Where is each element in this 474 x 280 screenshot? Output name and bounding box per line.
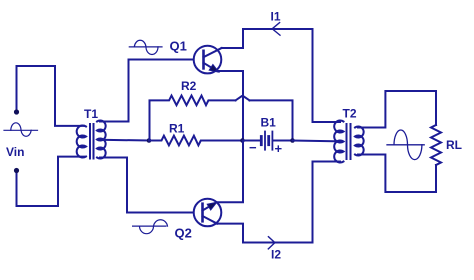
battery B1 bbox=[243, 132, 293, 150]
wire T2 secondary bottom to RL loop bbox=[358, 155, 436, 193]
svg-text:Q1: Q1 bbox=[170, 39, 187, 54]
arrow I2 (pointing right) bbox=[268, 237, 275, 249]
wire RL right vertical top bbox=[435, 91, 437, 125]
resistor R1 bbox=[149, 136, 243, 146]
node B junction dot bbox=[290, 138, 295, 143]
svg-text:Q2: Q2 bbox=[175, 226, 192, 241]
wire Vin loop top bbox=[17, 66, 85, 126]
svg-text:I1: I1 bbox=[271, 10, 281, 24]
svg-text:Vin: Vin bbox=[6, 145, 24, 159]
wire Q1 collector to top rail bbox=[222, 29, 243, 48]
wire T2 secondary top to RL loop bbox=[358, 91, 436, 128]
transformer T1 core bbox=[90, 124, 94, 159]
wire T1 secondary bottom to Q2 base bbox=[100, 158, 194, 213]
transformer T1 primary winding bbox=[77, 126, 86, 158]
transformer T2 secondary winding bbox=[355, 127, 364, 156]
wire Q1 emitter down to node C bbox=[216, 71, 243, 141]
wire T1 secondary top to Q1 base bbox=[100, 60, 194, 122]
wire R2 right to node B bbox=[250, 100, 293, 140]
svg-text:R1: R1 bbox=[169, 122, 185, 136]
svg-text:I2: I2 bbox=[271, 248, 281, 262]
transistor Q1 bbox=[194, 46, 222, 74]
source sine symbol at output (RL) bbox=[387, 130, 424, 160]
wire Q2 collector to bottom rail bbox=[217, 224, 243, 243]
transformer T2 primary winding bbox=[334, 120, 343, 162]
wire R2 hop over emitter line bbox=[236, 96, 250, 100]
wire bottom rail I2 bbox=[243, 162, 340, 243]
wire Vin loop bottom bbox=[17, 157, 85, 206]
wire node B to T2 center tap bbox=[293, 140, 341, 143]
source sine symbol at Q2 input (inverted) bbox=[133, 220, 168, 234]
svg-text:+: + bbox=[275, 141, 283, 156]
wire Vin loop left vertical bottom bbox=[16, 171, 18, 206]
transformer T2 core bbox=[347, 124, 351, 159]
svg-text:T2: T2 bbox=[343, 107, 357, 121]
node Vin top terminal bbox=[14, 109, 19, 114]
svg-text:−: − bbox=[249, 140, 257, 155]
node C junction dot bbox=[240, 138, 245, 143]
node Vin bottom terminal bbox=[14, 168, 19, 173]
resistor R2 bbox=[150, 96, 236, 141]
svg-text:T1: T1 bbox=[84, 107, 98, 121]
transistor Q2 bbox=[194, 199, 222, 227]
svg-text:RL: RL bbox=[446, 138, 462, 152]
resistor RL bbox=[431, 125, 441, 165]
transformer T1 secondary winding bbox=[97, 121, 106, 159]
arrow I1 (pointing left) bbox=[272, 23, 280, 36]
svg-text:R2: R2 bbox=[181, 79, 197, 93]
wire T1 center tap to node A bbox=[100, 139, 149, 142]
wire node C down to Q2 emitter bbox=[216, 141, 243, 203]
node A junction dot bbox=[147, 138, 152, 143]
source sine symbol at Q1 input bbox=[129, 40, 162, 54]
svg-text:B1: B1 bbox=[261, 116, 277, 130]
wire top rail I1 bbox=[243, 29, 340, 122]
wire RL right vertical bottom bbox=[435, 165, 437, 192]
source Vin sine symbol bbox=[4, 123, 38, 137]
wire Vin loop left vertical top bbox=[16, 66, 18, 111]
